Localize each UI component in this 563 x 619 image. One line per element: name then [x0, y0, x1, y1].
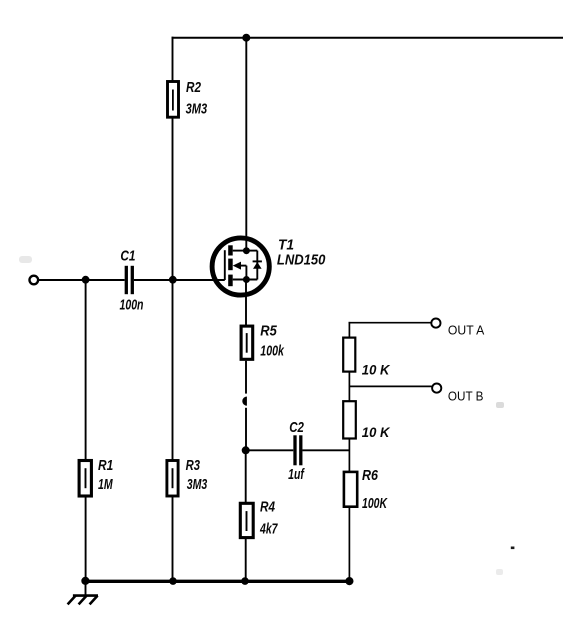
label T1 part LND150: [277, 252, 326, 269]
wire between 10K resistors: [348, 372, 350, 402]
wire input to C1: [39, 279, 125, 281]
svg-text:C1: C1: [120, 248, 135, 265]
artifact faint smudge bottom right: [496, 569, 503, 575]
label R6 value 100K: [362, 495, 388, 512]
wire C2 left: [246, 449, 294, 451]
junction top rail / drain column: [242, 34, 250, 42]
resistor R6: [344, 472, 357, 507]
artifact dark speck: [511, 547, 515, 550]
terminal OUT A: [431, 319, 440, 328]
wire drain from top rail to T1: [245, 38, 247, 249]
label OUT A: [448, 322, 485, 337]
label R2 value 3M3: [186, 100, 208, 117]
svg-text:R3: R3: [186, 457, 201, 474]
svg-text:OUT A: OUT A: [448, 322, 485, 337]
resistor R1: [79, 461, 91, 497]
svg-text:1M: 1M: [98, 476, 113, 493]
junction ground rail R3: [169, 577, 177, 585]
label C1: [120, 248, 135, 265]
label R3: [186, 457, 201, 474]
resistor 10K upper: [343, 338, 355, 372]
ground symbol: [68, 596, 98, 605]
capacitor C1: [126, 266, 132, 294]
label C1 value 100n: [120, 296, 144, 313]
label R5: [260, 322, 277, 339]
label OUT B: [448, 389, 484, 404]
capacitor C2: [295, 435, 301, 465]
junction ground rail R6: [345, 577, 353, 585]
svg-text:1uf: 1uf: [288, 466, 305, 483]
wire R3 to ground rail: [172, 496, 174, 581]
wire R4 to ground rail: [245, 539, 247, 581]
wire R1 to ground rail: [85, 497, 87, 581]
svg-text:10 K: 10 K: [362, 424, 390, 440]
T1 body (bulk) arrow: [233, 262, 247, 280]
wire break half-moon mark: [242, 397, 247, 406]
label T1: [278, 237, 294, 254]
wire C2 right to divider: [303, 449, 350, 451]
svg-text:R1: R1: [98, 457, 113, 474]
label R3 value 3M3: [187, 476, 208, 493]
artifact faint smudge right of OUT B: [496, 402, 504, 408]
wire top supply rail: [172, 37, 563, 39]
label R2: [186, 79, 202, 96]
junction ground rail R1: [81, 577, 89, 585]
wire divider top: [348, 322, 350, 337]
svg-text:LND150: LND150: [277, 252, 326, 269]
wire OUT B: [349, 385, 431, 387]
wire top rail corner down to R2: [172, 37, 174, 81]
input terminal: [30, 276, 39, 285]
svg-text:R2: R2: [186, 79, 202, 96]
label R1: [98, 457, 113, 474]
T1 drain to body-diode link: [246, 250, 257, 252]
resistor R3: [167, 461, 178, 497]
terminal OUT B: [432, 384, 441, 393]
resistor R5: [241, 326, 253, 359]
svg-text:OUT B: OUT B: [448, 389, 484, 404]
resistor R4: [240, 503, 253, 537]
label C2 value 1uf: [288, 466, 305, 483]
junction input wire / R1: [82, 276, 90, 284]
artifact faint smudge top-left: [19, 256, 32, 263]
T1 source connect: [233, 279, 258, 281]
svg-text:R6: R6: [362, 467, 379, 484]
wire 10K lower to R6: [348, 439, 350, 472]
T1 channel bars: [228, 245, 233, 286]
wire source to R5: [245, 281, 247, 325]
junction ground rail R4: [241, 577, 249, 585]
wire break to C2 junction: [245, 408, 247, 451]
svg-text:R5: R5: [260, 322, 277, 339]
wire C1 to gate of T1: [134, 279, 225, 281]
svg-text:100k: 100k: [260, 342, 284, 359]
resistor R2: [168, 82, 179, 118]
wire R2 bottom to gate node: [172, 117, 174, 280]
svg-text:4k7: 4k7: [259, 521, 278, 538]
wire OUT A: [349, 322, 432, 324]
svg-text:C2: C2: [289, 419, 304, 436]
label R4: [260, 499, 276, 516]
label C2: [289, 419, 304, 436]
wire R3 top: [172, 280, 174, 460]
svg-text:3M3: 3M3: [187, 476, 208, 493]
label R6: [362, 467, 379, 484]
svg-text:10 K: 10 K: [362, 362, 390, 378]
junction C2 node: [242, 446, 250, 454]
label 10K upper: [362, 362, 390, 378]
label 10K lower: [362, 424, 390, 440]
T1 gate bar: [224, 250, 226, 280]
T1 body diode: [253, 251, 262, 280]
svg-text:3M3: 3M3: [186, 100, 208, 117]
ground rail: [86, 580, 350, 583]
ground stub: [85, 581, 87, 596]
label R5 value 100k: [260, 342, 284, 359]
T1 drain junction dot: [243, 247, 250, 254]
svg-text:R4: R4: [260, 499, 276, 516]
junction gate node R2/R3: [169, 276, 177, 284]
wire R5 to break: [245, 361, 247, 394]
transistor T1 body circle: [212, 238, 269, 295]
wire R1 top: [85, 280, 87, 460]
resistor 10K lower: [343, 401, 356, 438]
label R1 value 1M: [98, 476, 113, 493]
svg-text:100K: 100K: [362, 495, 388, 512]
T1 source junction dot: [243, 276, 250, 283]
wire junction to R4: [245, 450, 247, 502]
wire R6 to ground rail: [348, 507, 350, 581]
svg-text:100n: 100n: [120, 296, 144, 313]
label R4 value 4k7: [259, 521, 278, 538]
T1 drain connect: [233, 250, 247, 252]
